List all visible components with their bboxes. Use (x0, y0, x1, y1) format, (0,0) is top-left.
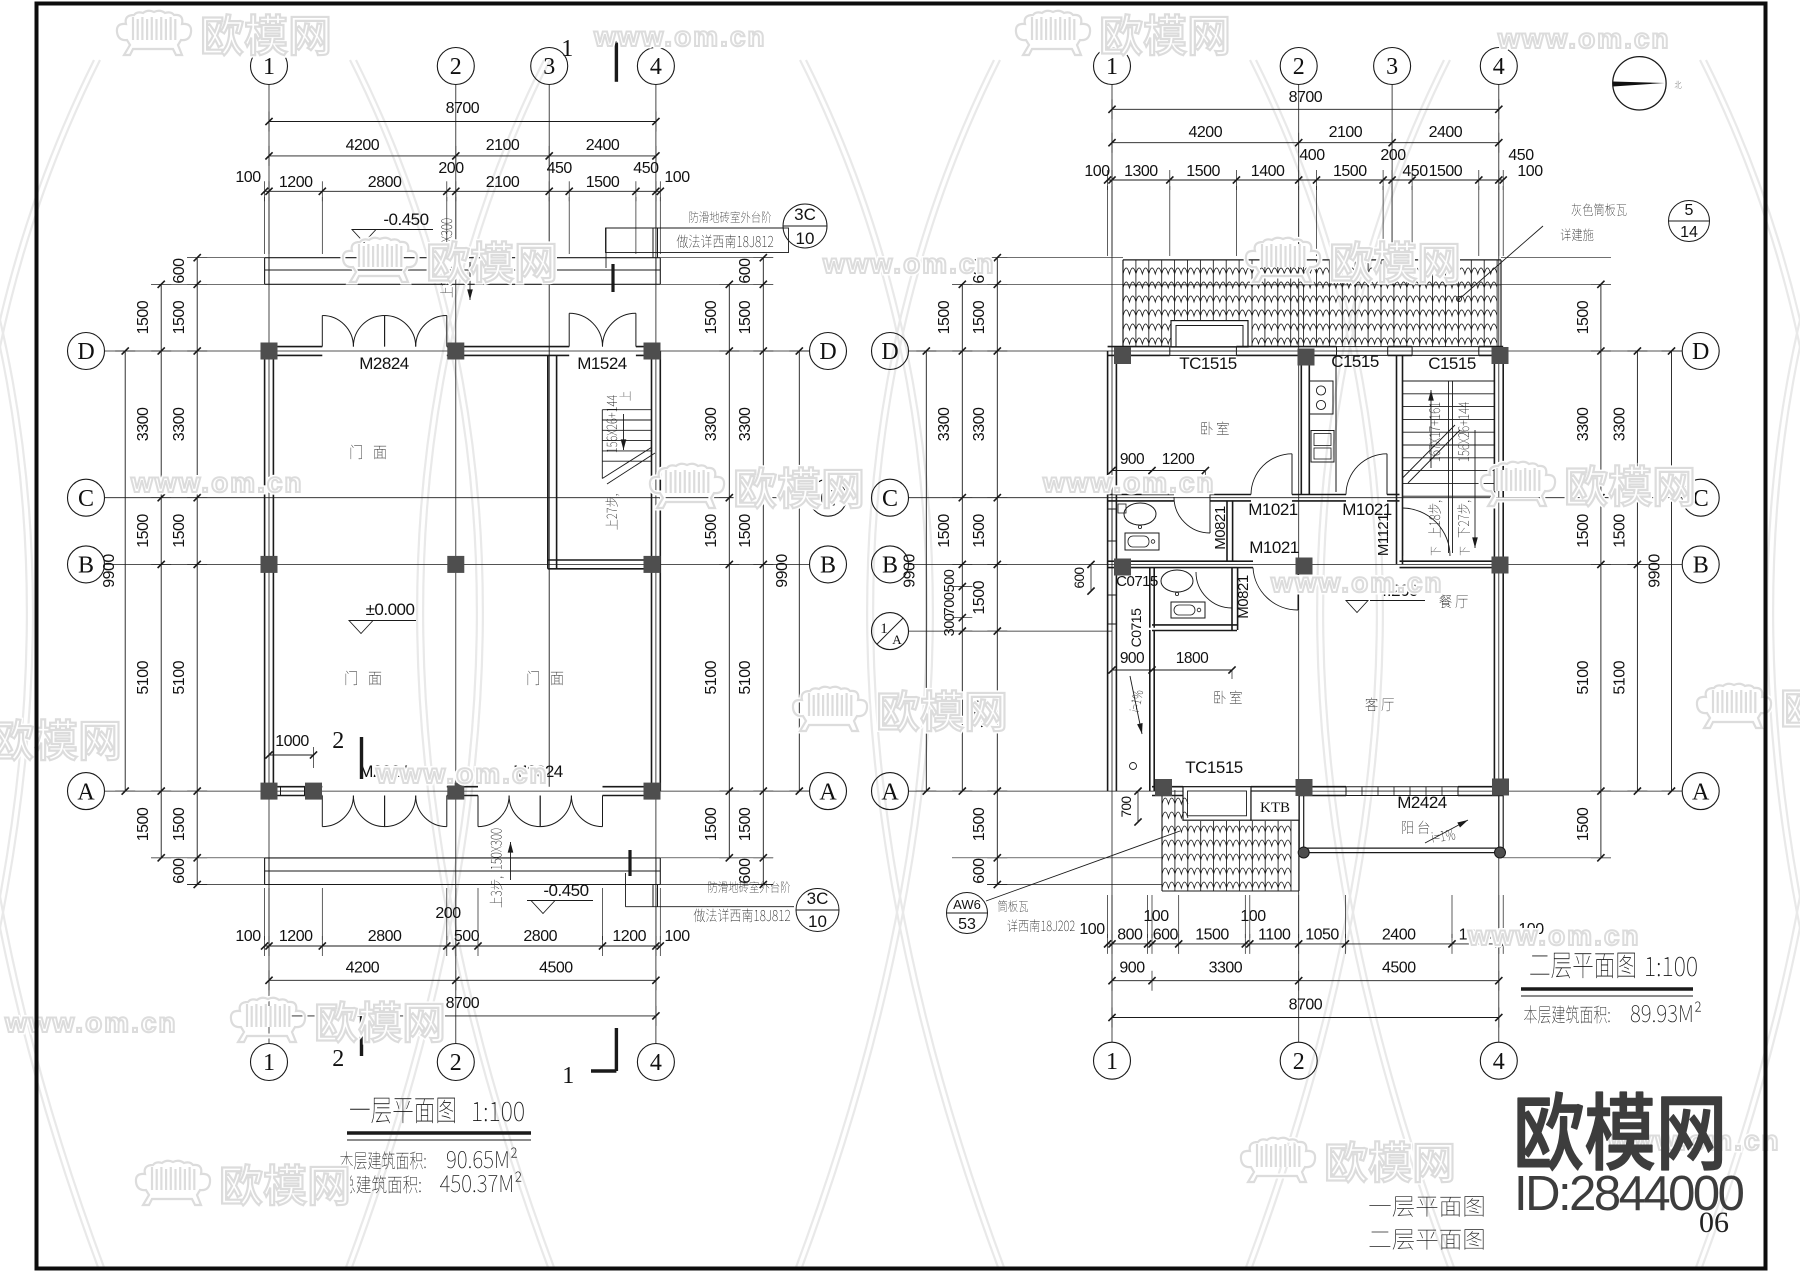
left plan: grid line 4 (655, 85, 657, 1044)
svg-text:2800: 2800 (523, 928, 557, 945)
svg-text:3: 3 (1386, 54, 1398, 80)
left plan: wall row A (265, 786, 323, 788)
right plan: roof note leader (1461, 226, 1543, 298)
svg-text:100: 100 (1143, 908, 1169, 925)
right plan: dim 9900 right (1671, 351, 1673, 791)
svg-text:3300: 3300 (171, 407, 188, 441)
left plan: window in A wall at 1000 column (281, 786, 305, 788)
svg-text:B: B (78, 553, 94, 579)
svg-text:1200: 1200 (279, 928, 313, 945)
svg-text:3300: 3300 (1612, 407, 1629, 441)
right plan: wall row A (1152, 786, 1183, 788)
right plan: door M1021 bedroom2 (1297, 568, 1299, 610)
svg-text:1300: 1300 (1124, 163, 1158, 180)
svg-text:900: 900 (1120, 451, 1145, 468)
left plan: top grid bubbles 1 2 3 4 (251, 48, 288, 85)
svg-text:www.om.cn: www.om.cn (822, 248, 996, 279)
right plan: overall dim 8700 bottom (1112, 1017, 1499, 1019)
right plan: grid row 1/A (909, 630, 1113, 632)
right plan: title 二层平面图 (1530, 953, 1635, 979)
svg-text:1500: 1500 (135, 514, 152, 548)
svg-text:53: 53 (958, 916, 976, 933)
svg-text:www.om.cn: www.om.cn (130, 467, 304, 498)
svg-text:600: 600 (737, 258, 754, 284)
right plan: east wall (1493, 351, 1495, 791)
svg-text:1500: 1500 (971, 300, 988, 334)
svg-text:2100: 2100 (1329, 124, 1363, 141)
svg-text:500: 500 (942, 569, 958, 592)
right plan: window C0715 lower in west wall (1107, 595, 1109, 624)
right plan: roof note circle 5/14 (1669, 201, 1710, 242)
left plan: grid row C (105, 497, 810, 499)
svg-text:2100: 2100 (486, 174, 520, 191)
svg-text:C: C (882, 486, 898, 512)
left plan: stair label 上27步 (605, 494, 619, 529)
svg-text:1500: 1500 (1333, 163, 1367, 180)
svg-text:2400: 2400 (1382, 927, 1416, 944)
right plan: stair arrows (1430, 390, 1432, 468)
svg-text:C0715: C0715 (1128, 608, 1144, 647)
svg-text:C0715: C0715 (1116, 573, 1158, 590)
svg-text:M2424: M2424 (1397, 793, 1447, 812)
svg-text:5100: 5100 (171, 660, 188, 694)
svg-text:www.om.cn: www.om.cn (4, 1007, 178, 1038)
left plan: room label 门面 lower left (346, 671, 381, 685)
svg-text:1500: 1500 (1575, 807, 1592, 841)
left plan: interior partition line on grid 3 (548, 260, 550, 787)
left plan: grid row B (105, 563, 810, 565)
right plan: stair treads (1403, 380, 1495, 382)
left plan: grid row A (105, 790, 810, 792)
svg-text:8700: 8700 (446, 995, 480, 1012)
svg-text:1500: 1500 (171, 300, 188, 334)
left plan: right dim chain outer (762, 258, 764, 885)
left plan: stair break line (602, 447, 651, 478)
right plan: window TC1515 in D wall (1170, 346, 1237, 348)
svg-text:5100: 5100 (737, 660, 754, 694)
svg-text:C: C (1693, 486, 1709, 512)
right plan: columns row A (1155, 779, 1172, 796)
right plan: kitchen counter edge (1335, 357, 1337, 492)
svg-text:8700: 8700 (446, 100, 480, 117)
svg-text:1200: 1200 (279, 174, 313, 191)
left plan: stair treads (602, 409, 651, 411)
svg-text:4200: 4200 (346, 137, 380, 154)
svg-text:700: 700 (1119, 796, 1134, 817)
svg-text:1500: 1500 (703, 514, 720, 548)
right plan: upper bathroom east wall (1226, 501, 1228, 561)
svg-text:D: D (77, 339, 94, 365)
right plan: lower bath door (1231, 572, 1233, 608)
svg-text:KTB: KTB (1260, 800, 1290, 816)
svg-text:5: 5 (1685, 202, 1694, 219)
svg-text:9900: 9900 (774, 554, 791, 588)
right plan: grid row D (909, 350, 1683, 352)
svg-text:M2824: M2824 (359, 354, 409, 373)
right plan: columns row D (1114, 347, 1131, 364)
left plan: bottom grid bubbles 1 2 4 (251, 1044, 288, 1081)
left plan: left dim chain inner (160, 284, 162, 858)
svg-text:1200: 1200 (612, 928, 646, 945)
svg-text:M1021: M1021 (1249, 538, 1299, 557)
right plan: dim 900 1200 upper (1112, 470, 1205, 472)
right plan: wall row D (1108, 346, 1170, 348)
right plan: door M1021 kitchen (1386, 454, 1388, 495)
svg-text:B: B (882, 553, 898, 579)
svg-text:450: 450 (547, 160, 573, 177)
svg-text:500: 500 (454, 928, 480, 945)
right plan: witness lines right side (1501, 283, 1611, 285)
svg-text:2: 2 (332, 728, 344, 754)
svg-text:1000: 1000 (275, 733, 309, 750)
right plan: left bubble 1/A (872, 613, 909, 650)
svg-text:4200: 4200 (346, 959, 380, 976)
left plan: columns row A (261, 783, 278, 800)
svg-text:9900: 9900 (1647, 554, 1664, 588)
svg-text:A: A (881, 779, 899, 805)
right plan: dim 700 small at eave (1137, 791, 1139, 822)
left plan: door M2824 top (321, 316, 323, 347)
svg-text:1500: 1500 (971, 514, 988, 548)
right plan: detail dim row top (1108, 179, 1504, 181)
right plan: dim 600 small (1090, 564, 1092, 591)
svg-text:1: 1 (1106, 1049, 1118, 1075)
svg-text:3300: 3300 (936, 407, 953, 441)
right plan: room label 卧室 lower (1214, 690, 1241, 704)
svg-text:2: 2 (1293, 54, 1305, 80)
left plan: step note 上3步 150x300 top (440, 219, 454, 298)
svg-text:8700: 8700 (1289, 89, 1323, 106)
right plan: door M1021 bedroom1 (1291, 454, 1293, 495)
svg-text:4200: 4200 (1189, 124, 1223, 141)
svg-text:100: 100 (664, 928, 690, 945)
svg-text:100: 100 (1084, 163, 1110, 180)
left plan: dim 9900 right (798, 351, 800, 791)
left plan: area note 总建筑面积 450.37M2 (341, 1175, 421, 1193)
svg-text:1500: 1500 (135, 807, 152, 841)
svg-text:4: 4 (650, 1050, 662, 1076)
right plan: KTB room (1251, 791, 1299, 820)
right plan: grid row C (909, 497, 1683, 499)
left plan: room label 门面 upper (351, 445, 386, 459)
svg-text:100: 100 (1240, 908, 1266, 925)
left plan: overall dim 8700 top (269, 121, 656, 123)
right plan: window M2424 in A wall (1346, 786, 1458, 788)
right plan: balcony slab (1298, 796, 1300, 853)
left plan: note leader bottom right (625, 873, 627, 907)
right plan: eave note leader (986, 831, 1180, 901)
svg-text:3300: 3300 (135, 407, 152, 441)
svg-text:1: 1 (263, 1050, 275, 1076)
right plan: stair label 上18步 (1428, 501, 1442, 538)
svg-text:www.om.cn: www.om.cn (593, 21, 767, 52)
svg-text:M1524: M1524 (577, 354, 627, 373)
svg-text:C1515: C1515 (1428, 354, 1476, 373)
svg-text:www.om.cn: www.om.cn (1497, 23, 1671, 54)
svg-text:100: 100 (235, 928, 261, 945)
svg-text:900: 900 (1120, 650, 1145, 667)
svg-text:1500: 1500 (936, 300, 953, 334)
svg-text:600: 600 (171, 258, 188, 284)
svg-text:450: 450 (1402, 163, 1428, 180)
right plan: gutter strip (1130, 763, 1137, 770)
svg-text:5100: 5100 (1575, 660, 1592, 694)
right plan: wall piece A row (1304, 786, 1346, 788)
svg-text:2400: 2400 (586, 137, 620, 154)
svg-text:700: 700 (942, 592, 958, 615)
right plan: lower bathroom walls (1231, 568, 1233, 630)
svg-text:1: 1 (562, 1063, 574, 1089)
svg-text:www.om.cn: www.om.cn (1042, 467, 1216, 498)
right plan: eave note 筒板瓦 (998, 900, 1028, 912)
svg-text:1500: 1500 (703, 807, 720, 841)
svg-text:1: 1 (263, 54, 275, 80)
left plan: area note 本层建筑面积 90.65M2 (340, 1151, 425, 1169)
svg-text:1100: 1100 (1258, 927, 1291, 944)
svg-text:450: 450 (1508, 147, 1534, 164)
left plan: overall dim 8700 bottom (269, 1015, 656, 1017)
svg-text:B: B (1693, 553, 1709, 579)
right plan: grid line 4 (1498, 85, 1500, 1043)
right plan: door M0821 upper bath (1209, 495, 1211, 534)
svg-text:100: 100 (664, 169, 690, 186)
svg-text:1500: 1500 (171, 514, 188, 548)
left plan: grid line 1 (268, 85, 270, 1044)
right plan: witness lines left side (952, 283, 1123, 285)
svg-text:1500: 1500 (1575, 514, 1592, 548)
svg-text:600: 600 (1153, 927, 1179, 944)
left plan: west wall (264, 351, 266, 791)
svg-text:D: D (881, 339, 898, 365)
right plan: roof note 灰色筒板瓦 (1572, 203, 1627, 216)
right plan: room label 客厅 (1365, 697, 1393, 711)
right plan: door M1121 stair (1403, 508, 1450, 556)
svg-text:600: 600 (737, 858, 754, 884)
right plan: grid line 2 (1298, 85, 1300, 1043)
svg-text:14: 14 (1680, 224, 1698, 241)
left plan: left dim chain outer (196, 258, 198, 885)
right plan: window C1515 stair in D wall (1412, 346, 1479, 348)
svg-text:2400: 2400 (1429, 124, 1463, 141)
left plan: right dim chain inner (728, 284, 730, 858)
svg-text:3300: 3300 (1209, 960, 1243, 977)
svg-text:2800: 2800 (368, 174, 402, 191)
left plan: detail dim row bottom (265, 945, 661, 947)
svg-text:1500: 1500 (1195, 927, 1229, 944)
right plan: area note 本层建筑面积 89.93M2 (1524, 1005, 1609, 1023)
svg-text:10: 10 (796, 229, 815, 248)
left plan: east wall (651, 351, 653, 791)
right plan: lower bath washbasin (1161, 570, 1193, 592)
right plan: grid line 3 (1391, 85, 1393, 261)
svg-text:100: 100 (1079, 921, 1105, 938)
svg-text:3C: 3C (794, 205, 816, 224)
svg-text:-0.450: -0.450 (543, 881, 588, 900)
svg-text:9900: 9900 (101, 554, 118, 588)
svg-text:4500: 4500 (539, 959, 573, 976)
left plan: stair enclosure west wall (547, 355, 549, 568)
right plan: stair label 156X26+144 (1458, 402, 1469, 461)
right plan: roof skylight box (1171, 321, 1248, 347)
svg-text:200: 200 (435, 905, 461, 922)
right plan: kitchen west wall (1300, 355, 1302, 494)
right plan: right grid bubbles D C B A (1682, 333, 1719, 370)
right plan: room label 阳台 (1402, 821, 1429, 834)
svg-text:5100: 5100 (135, 660, 152, 694)
svg-text:1500: 1500 (971, 807, 988, 841)
svg-text:600: 600 (1072, 567, 1087, 588)
svg-text:1500: 1500 (1186, 163, 1220, 180)
svg-text:D: D (819, 339, 836, 365)
svg-text:200: 200 (438, 160, 464, 177)
svg-text:2100: 2100 (486, 137, 520, 154)
north arrow (1613, 57, 1666, 110)
svg-text:A: A (892, 632, 902, 647)
index list 二层平面图 (1370, 1229, 1484, 1250)
right plan: columns row B (1114, 559, 1131, 576)
right plan: window C0715 upper in west wall (1107, 509, 1109, 541)
svg-text:1500: 1500 (936, 514, 953, 548)
svg-text:4: 4 (650, 54, 662, 80)
svg-text:1500: 1500 (971, 580, 988, 614)
right plan: left dim chain mid (961, 284, 963, 791)
svg-text:9900: 9900 (902, 554, 919, 588)
left plan: dim row 4200 2100 2400 top (269, 155, 656, 157)
left plan: witness lines right side (660, 283, 773, 285)
right plan: lower bath tub (1171, 602, 1205, 618)
svg-text:1500: 1500 (1429, 163, 1463, 180)
svg-text:1200: 1200 (1162, 451, 1195, 468)
right plan: dim row 900 3300 4500 bottom (1112, 980, 1499, 982)
index list 一层平面图 (1369, 1196, 1483, 1217)
svg-text:M0821: M0821 (1212, 506, 1229, 550)
svg-text:1500: 1500 (737, 514, 754, 548)
left plan: door M1524 top (568, 313, 570, 346)
svg-text:1500: 1500 (135, 300, 152, 334)
svg-text:1: 1 (561, 36, 573, 62)
right plan: stair stringer (1448, 381, 1450, 553)
right plan: upper bath tub (1125, 533, 1159, 550)
svg-text:www.om.cn: www.om.cn (1270, 567, 1444, 598)
right plan: grid line 1 (1111, 85, 1113, 1043)
svg-text:www.om.cn: www.om.cn (1467, 920, 1641, 951)
svg-text:1500: 1500 (737, 300, 754, 334)
left plan: detail dim row top (265, 190, 661, 192)
right plan: grid row A (909, 790, 1683, 792)
svg-text:4: 4 (1493, 54, 1505, 80)
svg-text:5100: 5100 (703, 660, 720, 694)
svg-text:8700: 8700 (1289, 997, 1323, 1014)
right plan: kitchen sink (1311, 431, 1334, 463)
left plan: dim row 4200 4500 bottom (269, 979, 656, 981)
svg-text:4500: 4500 (1382, 960, 1416, 977)
left plan: right grid bubbles D C B A (810, 333, 847, 370)
svg-text:1500: 1500 (171, 807, 188, 841)
svg-text:1500: 1500 (1612, 514, 1629, 548)
left plan: dim 9900 left (124, 351, 126, 791)
right plan: wall row C (1108, 494, 1174, 496)
right plan: stair label 下27步 (1457, 501, 1471, 538)
svg-text:3: 3 (543, 54, 555, 80)
svg-text:A: A (77, 779, 95, 805)
right plan: window TC1515 in A wall (1183, 786, 1251, 788)
svg-text:600: 600 (171, 858, 188, 884)
svg-text:100: 100 (235, 169, 261, 186)
left plan: stair label 上 (619, 391, 630, 400)
left plan: bottom porch steps (265, 857, 661, 859)
site logo 欧模网 large (1518, 1092, 1721, 1171)
left plan: columns row B (261, 556, 278, 573)
right plan: right dim chain mid (1636, 351, 1638, 791)
svg-text:3300: 3300 (971, 407, 988, 441)
left plan: stair enclosure south wall (548, 559, 652, 561)
left plan: step note 上3步 150x300 bottom (489, 829, 503, 908)
left plan: left grid bubbles D C B A (68, 333, 105, 370)
svg-text:800: 800 (1117, 927, 1143, 944)
right plan: dim 900 1800 lower (1112, 669, 1232, 671)
svg-text:C: C (78, 486, 94, 512)
left plan: title 一层平面图 (350, 1098, 455, 1124)
svg-text:200: 200 (1380, 147, 1406, 164)
right plan: room label 餐厅 (1440, 595, 1468, 609)
right plan: dim 9900 left (925, 351, 927, 791)
right plan: balcony tile roof hatch (1162, 790, 1291, 891)
left plan: top porch steps (265, 257, 661, 259)
right plan: window C1515 kitchen in D wall (1337, 346, 1388, 348)
left plan: door M2824 bottom right (477, 796, 479, 827)
svg-text:M1121: M1121 (1375, 514, 1392, 556)
svg-text:2: 2 (450, 54, 462, 80)
left plan: note leader top right (605, 228, 607, 268)
svg-text:06: 06 (1699, 1206, 1729, 1239)
svg-text:3300: 3300 (1575, 407, 1592, 441)
svg-text:B: B (820, 553, 836, 579)
svg-text:900: 900 (1119, 960, 1145, 977)
right plan: detail dim row bottom (1108, 943, 1504, 945)
svg-text:300: 300 (942, 613, 958, 636)
svg-text:M1021: M1021 (1248, 500, 1298, 519)
left plan: dim 1000 at A (269, 754, 314, 756)
left plan: note text top (689, 211, 771, 223)
right plan: grid row B (909, 563, 1683, 565)
right plan: balcony slope i=1% (1432, 829, 1456, 843)
right plan: stair break (1403, 425, 1456, 478)
svg-text:600: 600 (971, 858, 988, 884)
left plan: note text bottom (708, 881, 790, 893)
svg-text:2800: 2800 (368, 928, 402, 945)
svg-text:±0.000: ±0.000 (366, 600, 415, 619)
left plan: grid line 3 (548, 85, 550, 261)
right plan: room label 卧室 upper (1201, 421, 1228, 435)
svg-text:5100: 5100 (1612, 660, 1629, 694)
svg-text:100: 100 (1517, 163, 1543, 180)
right plan: stair west wall (1396, 355, 1398, 564)
left plan: grid row D (105, 350, 810, 352)
svg-text:1500: 1500 (1575, 300, 1592, 334)
svg-text:TC1515: TC1515 (1185, 758, 1243, 777)
svg-text:2: 2 (1293, 1049, 1305, 1075)
right plan: stair label 167X17+161 (1429, 403, 1440, 462)
svg-text:-0.450: -0.450 (383, 210, 428, 229)
svg-text:10: 10 (808, 912, 827, 931)
svg-text:www.om.cn: www.om.cn (375, 758, 549, 789)
right plan: dim row 4200 2100 2400 top (1112, 142, 1499, 144)
right plan: bay window TC1515 (1183, 787, 1251, 821)
svg-text:1500: 1500 (737, 807, 754, 841)
svg-text:1800: 1800 (1176, 650, 1209, 667)
left plan: stair direction arrow (623, 414, 625, 450)
svg-text:AW6: AW6 (953, 897, 981, 912)
